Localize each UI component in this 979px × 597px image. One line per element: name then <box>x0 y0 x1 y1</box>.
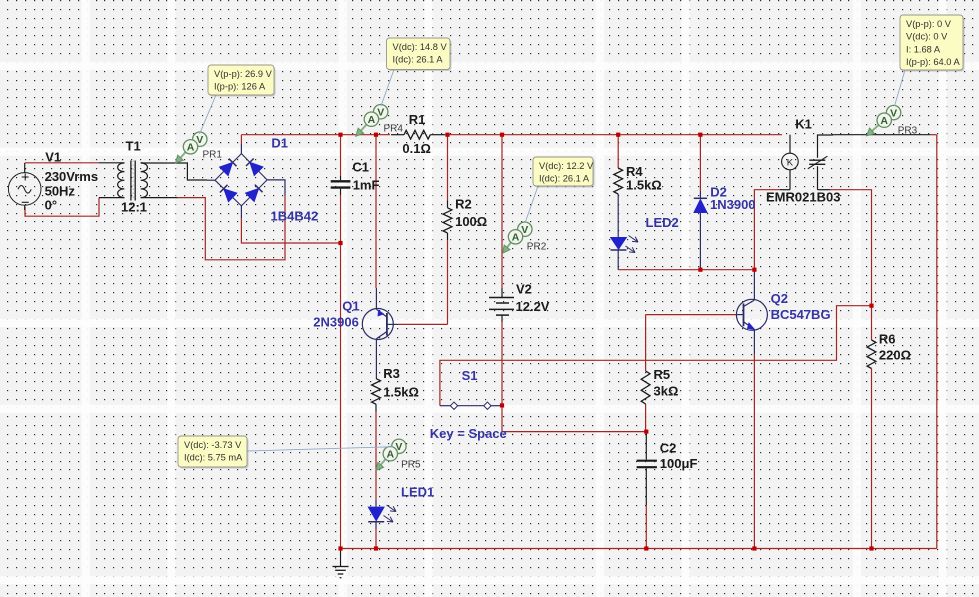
svg-text:D1: D1 <box>271 136 288 151</box>
svg-text:I(p-p): 64.0 A: I(p-p): 64.0 A <box>906 57 961 67</box>
svg-text:1.5kΩ: 1.5kΩ <box>383 385 419 400</box>
svg-text:V(p-p): 0 V: V(p-p): 0 V <box>906 19 952 29</box>
svg-text:R2: R2 <box>455 197 472 212</box>
svg-text:LED1: LED1 <box>401 485 434 500</box>
svg-text:R6: R6 <box>879 332 896 347</box>
svg-text:A: A <box>880 115 888 127</box>
svg-text:PR3: PR3 <box>898 126 918 137</box>
svg-text:220Ω: 220Ω <box>879 348 911 363</box>
svg-text:V(dc): 14.8 V: V(dc): 14.8 V <box>393 42 448 52</box>
svg-text:A: A <box>187 142 195 154</box>
svg-text:3kΩ: 3kΩ <box>654 384 679 399</box>
svg-text:R1: R1 <box>409 112 426 127</box>
svg-text:I(dc): 5.75 mA: I(dc): 5.75 mA <box>184 453 243 463</box>
svg-text:Q1: Q1 <box>342 299 359 314</box>
svg-text:A: A <box>512 232 520 244</box>
svg-text:V(dc): 12.2 V: V(dc): 12.2 V <box>539 161 594 171</box>
svg-text:12:1: 12:1 <box>121 200 147 215</box>
svg-text:I(p-p): 126 A: I(p-p): 126 A <box>214 82 266 92</box>
svg-text:1B4B42: 1B4B42 <box>271 209 319 224</box>
svg-text:BC547BG: BC547BG <box>771 307 831 322</box>
svg-text:A: A <box>368 114 376 126</box>
svg-text:V(dc): 0 V: V(dc): 0 V <box>906 32 948 42</box>
svg-text:2N3906: 2N3906 <box>313 314 359 329</box>
svg-text:I(dc): 26.1 A: I(dc): 26.1 A <box>393 55 444 65</box>
svg-text:V: V <box>890 108 897 120</box>
svg-text:12.2V: 12.2V <box>516 299 550 314</box>
svg-text:V: V <box>521 224 528 236</box>
svg-text:1N3900: 1N3900 <box>710 197 756 212</box>
svg-text:V: V <box>395 441 402 453</box>
svg-text:C2: C2 <box>660 441 677 456</box>
svg-text:V2: V2 <box>516 282 532 297</box>
svg-text:EMR021B03: EMR021B03 <box>766 190 840 205</box>
svg-text:C1: C1 <box>352 159 369 174</box>
svg-text:A: A <box>387 449 395 461</box>
svg-text:50Hz: 50Hz <box>45 184 76 199</box>
svg-text:0.1Ω: 0.1Ω <box>402 141 431 156</box>
svg-text:PR5: PR5 <box>401 459 421 470</box>
svg-text:LED2: LED2 <box>646 215 679 230</box>
svg-text:S1: S1 <box>462 368 478 383</box>
svg-text:0°: 0° <box>45 198 57 213</box>
svg-text:R5: R5 <box>654 367 671 382</box>
svg-text:1mF: 1mF <box>353 178 380 193</box>
svg-text:V(dc): -3.73 V: V(dc): -3.73 V <box>184 440 242 450</box>
svg-text:V(p-p): 26.9 V: V(p-p): 26.9 V <box>214 69 273 79</box>
svg-text:K1: K1 <box>795 117 812 132</box>
svg-text:V: V <box>196 134 203 146</box>
svg-text:I(dc): 26.1 A: I(dc): 26.1 A <box>539 174 590 184</box>
svg-text:V1: V1 <box>45 150 61 165</box>
svg-text:PR4: PR4 <box>384 124 404 135</box>
svg-text:Key = Space: Key = Space <box>430 426 507 441</box>
svg-text:100μF: 100μF <box>660 456 698 471</box>
svg-text:K: K <box>787 157 794 168</box>
svg-text:100Ω: 100Ω <box>455 214 487 229</box>
svg-text:V: V <box>377 107 384 119</box>
svg-text:PR2: PR2 <box>527 242 547 253</box>
svg-text:R3: R3 <box>383 366 400 381</box>
svg-text:T1: T1 <box>126 139 141 154</box>
svg-text:230Vrms: 230Vrms <box>45 169 99 184</box>
svg-text:1.5kΩ: 1.5kΩ <box>626 178 662 193</box>
svg-text:I: 1.68 A: I: 1.68 A <box>906 44 941 54</box>
svg-text:PR1: PR1 <box>203 150 223 161</box>
svg-text:Q2: Q2 <box>771 291 788 306</box>
